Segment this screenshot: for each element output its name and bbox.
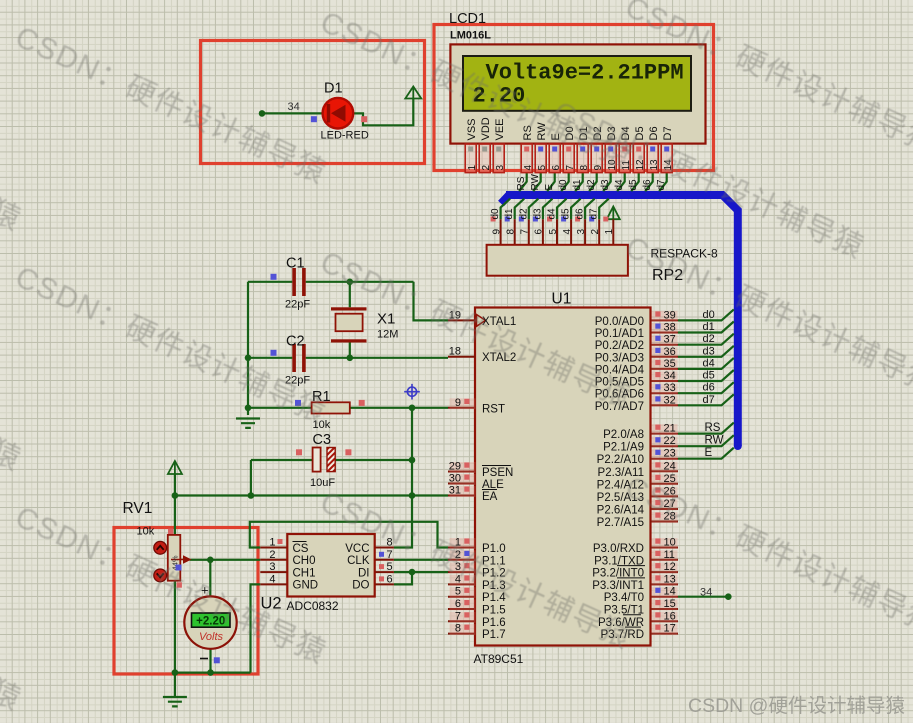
svg-text:d2: d2	[518, 208, 529, 220]
svg-text:d5: d5	[561, 208, 572, 220]
svg-text:d2: d2	[703, 333, 715, 345]
svg-text:24: 24	[664, 460, 676, 472]
svg-text:P0.3/AD3: P0.3/AD3	[595, 352, 644, 364]
svg-text:P2.7/A15: P2.7/A15	[597, 517, 644, 529]
svg-text:VSS: VSS	[466, 118, 478, 140]
svg-text:CH1: CH1	[293, 567, 316, 579]
svg-text:C1: C1	[286, 256, 305, 272]
svg-text:21: 21	[664, 423, 676, 435]
svg-text:4: 4	[562, 229, 573, 235]
svg-text:VDD: VDD	[480, 117, 492, 140]
svg-text:RW: RW	[530, 173, 541, 190]
svg-text:ADC0832: ADC0832	[287, 599, 339, 613]
svg-text:22pF: 22pF	[285, 299, 310, 311]
svg-text:P2.0/A8: P2.0/A8	[603, 429, 644, 441]
svg-text:22: 22	[664, 435, 676, 447]
svg-text:P3.3/INT1: P3.3/INT1	[592, 580, 644, 592]
svg-text:3: 3	[576, 229, 587, 235]
svg-text:25: 25	[664, 473, 676, 485]
svg-text:d1: d1	[504, 208, 515, 220]
svg-text:8: 8	[579, 165, 590, 171]
svg-text:P3.4/T0: P3.4/T0	[604, 592, 644, 604]
svg-text:CLK: CLK	[347, 555, 370, 567]
svg-text:P0.0/AD0: P0.0/AD0	[595, 316, 644, 328]
svg-text:d4: d4	[547, 208, 558, 220]
svg-text:VCC: VCC	[345, 543, 369, 555]
svg-text:32: 32	[664, 394, 676, 406]
svg-text:d6: d6	[575, 208, 586, 220]
svg-text:d5: d5	[628, 179, 639, 191]
svg-text:CS: CS	[293, 543, 309, 555]
svg-text:5: 5	[548, 229, 559, 235]
svg-text:P1.0: P1.0	[482, 543, 506, 555]
svg-text:9: 9	[455, 397, 461, 409]
svg-text:LED-RED: LED-RED	[321, 130, 369, 142]
svg-text:d1: d1	[572, 179, 583, 191]
svg-text:X1: X1	[377, 311, 395, 328]
svg-text:Volta9e=2.21PPM: Volta9e=2.21PPM	[486, 61, 684, 86]
svg-text:d3: d3	[532, 208, 543, 220]
svg-text:DI: DI	[358, 567, 370, 579]
svg-text:1: 1	[269, 537, 275, 549]
svg-text:LM016L: LM016L	[450, 29, 491, 41]
svg-text:12M: 12M	[377, 329, 398, 341]
svg-text:P1.6: P1.6	[482, 617, 506, 629]
svg-text:RV1: RV1	[123, 500, 153, 517]
svg-text:7: 7	[387, 549, 393, 561]
svg-text:P0.1/AD1: P0.1/AD1	[595, 328, 644, 340]
svg-text:AT89C51: AT89C51	[474, 652, 524, 666]
svg-text:10: 10	[664, 537, 676, 549]
svg-text:29: 29	[449, 461, 461, 473]
svg-text:16: 16	[664, 610, 676, 622]
svg-text:E: E	[544, 184, 555, 191]
svg-text:34: 34	[664, 370, 676, 382]
svg-text:38: 38	[664, 322, 676, 334]
svg-text:39: 39	[664, 309, 676, 321]
svg-text:d3: d3	[703, 345, 715, 357]
svg-text:RW: RW	[705, 435, 724, 447]
svg-text:5: 5	[537, 165, 548, 171]
svg-text:6: 6	[455, 598, 461, 610]
svg-text:4: 4	[269, 573, 275, 585]
svg-text:13: 13	[664, 573, 676, 585]
svg-text:P1.7: P1.7	[482, 629, 506, 641]
svg-text:D7: D7	[662, 126, 674, 140]
svg-text:RS: RS	[516, 176, 527, 190]
svg-text:C2: C2	[286, 333, 305, 349]
svg-text:7: 7	[455, 610, 461, 622]
svg-text:7: 7	[520, 229, 531, 235]
svg-text:d4: d4	[614, 179, 625, 191]
svg-text:34: 34	[288, 101, 300, 113]
svg-text:d0: d0	[703, 309, 715, 321]
svg-text:2: 2	[590, 229, 601, 235]
svg-text:8: 8	[506, 229, 517, 235]
svg-text:PSEN: PSEN	[482, 467, 513, 479]
svg-text:6: 6	[551, 165, 562, 171]
svg-text:18: 18	[449, 346, 461, 358]
svg-text:23: 23	[664, 448, 676, 460]
svg-text:P1.5: P1.5	[482, 605, 506, 617]
svg-text:Volts: Volts	[199, 631, 224, 643]
svg-text:12: 12	[664, 561, 676, 573]
svg-text:9: 9	[593, 165, 604, 171]
svg-text:d0: d0	[490, 208, 501, 220]
svg-text:17: 17	[664, 623, 676, 635]
svg-text:5: 5	[455, 586, 461, 598]
svg-text:34: 34	[700, 587, 712, 599]
svg-text:d3: d3	[600, 179, 611, 191]
svg-text:GND: GND	[293, 580, 319, 592]
svg-text:d0: d0	[558, 179, 569, 191]
svg-text:D1: D1	[324, 81, 343, 97]
svg-text:C3: C3	[313, 432, 332, 448]
svg-text:RST: RST	[482, 403, 505, 415]
svg-text:P2.2/A10: P2.2/A10	[597, 454, 644, 466]
svg-text:2: 2	[481, 165, 492, 171]
svg-text:d1: d1	[703, 321, 715, 333]
svg-text:1: 1	[604, 229, 615, 235]
svg-text:d4: d4	[703, 357, 715, 369]
svg-text:VEE: VEE	[494, 118, 506, 140]
svg-text:8: 8	[455, 623, 461, 635]
svg-text:U1: U1	[552, 291, 572, 308]
svg-text:2: 2	[269, 549, 275, 561]
svg-text:37: 37	[664, 334, 676, 346]
svg-text:4: 4	[523, 165, 534, 171]
svg-text:d6: d6	[642, 179, 653, 191]
svg-text:P0.2/AD2: P0.2/AD2	[595, 340, 644, 352]
svg-text:d7: d7	[589, 208, 600, 220]
svg-text:d7: d7	[703, 394, 715, 406]
svg-text:9: 9	[491, 229, 502, 235]
svg-text:14: 14	[664, 586, 676, 598]
svg-text:31: 31	[449, 485, 461, 497]
svg-text:5: 5	[387, 561, 393, 573]
svg-text:36: 36	[664, 346, 676, 358]
svg-text:RS: RS	[705, 422, 721, 434]
svg-text:d7: d7	[656, 179, 667, 191]
svg-text:6: 6	[387, 573, 393, 585]
svg-text:30: 30	[449, 473, 461, 485]
svg-text:3: 3	[495, 165, 506, 171]
svg-text:EA: EA	[482, 491, 498, 503]
svg-text:3: 3	[269, 561, 275, 573]
svg-text:CSDN @硬件设计辅导猿: CSDN @硬件设计辅导猿	[688, 695, 905, 717]
svg-text:CH0: CH0	[293, 555, 316, 567]
svg-text:15: 15	[664, 598, 676, 610]
svg-text:35: 35	[664, 358, 676, 370]
svg-text:DO: DO	[352, 580, 369, 592]
svg-text:10k: 10k	[137, 526, 155, 538]
svg-text:LCD1: LCD1	[449, 11, 486, 27]
svg-text:P2.1/A9: P2.1/A9	[603, 442, 644, 454]
svg-text:7: 7	[565, 165, 576, 171]
svg-text:d5: d5	[703, 370, 715, 382]
svg-text:6: 6	[534, 229, 545, 235]
svg-text:P3.0/RXD: P3.0/RXD	[593, 543, 644, 555]
svg-text:33: 33	[664, 382, 676, 394]
svg-text:d6: d6	[703, 382, 715, 394]
svg-text:E: E	[705, 447, 713, 459]
svg-text:d2: d2	[586, 179, 597, 191]
svg-text:11: 11	[664, 549, 675, 561]
svg-text:1: 1	[467, 165, 478, 171]
